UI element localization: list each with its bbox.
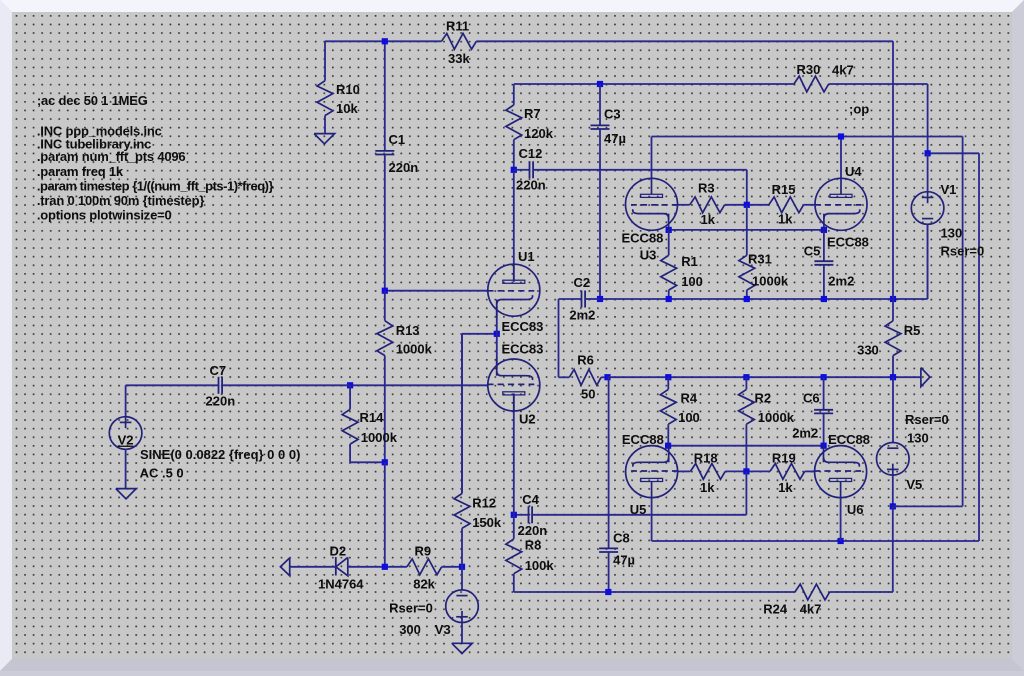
resistor R19 (770, 464, 805, 480)
label R1 (681, 254, 698, 269)
junction rail at C3/C2 (597, 296, 603, 302)
svg-text:.param timestep {1/((num_fft_p: .param timestep {1/((num_fft_pts-1)*freq… (37, 179, 274, 194)
input port arrow (280, 558, 289, 576)
svg-text:1k: 1k (701, 212, 716, 227)
label 150k R12 (472, 515, 502, 530)
svg-text:.tran 0 100m 90m {timestep}: .tran 0 100m 90m {timestep} (37, 193, 204, 208)
label 220n C12 (516, 178, 546, 193)
label 4k7 R30 (832, 63, 854, 78)
svg-text:1k: 1k (700, 480, 715, 495)
resistor R18 (690, 464, 725, 480)
wire R13/R14 node down to D2 rail (384, 462, 386, 567)
label C6 (803, 391, 820, 406)
svg-text:R9: R9 (415, 544, 432, 559)
svg-text:4k7: 4k7 (800, 602, 822, 617)
svg-text:C3: C3 (604, 107, 621, 122)
voltage source V2 (109, 417, 142, 450)
resistor R3 (690, 197, 725, 213)
svg-text:R15: R15 (772, 182, 796, 197)
svg-text:.options plotwinsize=0: .options plotwinsize=0 (37, 207, 172, 222)
wire R18/R19 node down bend left to C4 (532, 471, 746, 514)
svg-text:U3: U3 (640, 248, 657, 263)
wire U1 anode lead (513, 170, 515, 282)
wire R7 bottom to C12 node (513, 140, 515, 170)
label R5 (904, 323, 921, 338)
svg-text:U2: U2 (519, 411, 536, 426)
label 2m2 C5 (828, 273, 854, 288)
wire B+ rail R7/C3 to R30 (514, 83, 928, 85)
svg-text:1000k: 1000k (752, 273, 789, 288)
wire R31 top lead (746, 205, 748, 256)
spice directive text block (37, 93, 274, 223)
wire U2 cathode lead (496, 334, 498, 369)
svg-text:10k: 10k (336, 101, 358, 116)
triode U3 ECC88 (626, 178, 679, 232)
wire C2 right lead (585, 298, 600, 300)
wire R1 leads (668, 230, 670, 299)
wire C12 left lead (514, 169, 530, 171)
junction rail at R2 (743, 374, 749, 380)
resistor R12 (454, 494, 470, 529)
label 2m2 C6 (792, 426, 818, 441)
svg-text:V2: V2 (118, 433, 134, 448)
label R18 (694, 451, 718, 466)
wire R3 to junction to R15 (725, 204, 769, 206)
resistor R8 (506, 539, 522, 574)
label Rser V3 (389, 601, 433, 616)
junction rail at R5 bottom (890, 374, 896, 380)
svg-text:ECC88: ECC88 (622, 230, 664, 245)
svg-text:R6: R6 (577, 353, 594, 368)
triode U1 ECC83 (487, 264, 540, 318)
triode U2 ECC83 (487, 358, 540, 412)
svg-text:R3: R3 (698, 180, 715, 195)
junction at U4 anode (838, 133, 844, 139)
svg-text:100: 100 (681, 274, 703, 289)
svg-text:C7: C7 (210, 363, 227, 378)
svg-text:C6: C6 (803, 391, 820, 406)
voltage source V3 (446, 590, 479, 623)
svg-text:SINE(0 0.0822 {freq} 0 0 0): SINE(0 0.0822 {freq} 0 0 0) (140, 447, 300, 462)
wire V1 node to right branch (928, 152, 979, 154)
capacitor C5 top lead (823, 230, 825, 261)
label U5 (630, 502, 647, 517)
resistor R10 (317, 81, 333, 116)
label R12 (472, 496, 496, 511)
svg-text:220n: 220n (518, 523, 548, 538)
junction rail at R4 (665, 374, 671, 380)
label Rser V5 (905, 412, 949, 427)
label 120k (524, 126, 554, 141)
junction top rail at C1 (382, 38, 388, 44)
wire R14 leads (350, 385, 385, 462)
junction rail at C5 (821, 296, 827, 302)
resistor R4 (660, 389, 676, 424)
resistor R5 (885, 321, 901, 356)
wire C7 left lead to V2 (126, 385, 219, 417)
svg-text:R7: R7 (524, 106, 541, 121)
label R30 (797, 62, 821, 77)
label R24 (763, 602, 788, 617)
junction R14 return at R13 (382, 459, 388, 465)
svg-text:1k: 1k (778, 480, 793, 495)
label U6 (847, 502, 864, 517)
wire V1 top lead (927, 153, 929, 191)
label R8 (525, 538, 542, 553)
junction rail at C6 (821, 374, 827, 380)
capacitor C1 (375, 151, 394, 155)
resistor R11 (442, 33, 477, 49)
svg-text:C4: C4 (522, 492, 539, 507)
svg-text:;op: ;op (849, 102, 869, 117)
junction U1/U2 cathodes (494, 331, 500, 337)
wire C1 bottom to U1 grid node (384, 155, 386, 291)
label 50 R6 (581, 387, 595, 402)
svg-text:Rser=0: Rser=0 (905, 412, 949, 427)
resistor R9 (407, 559, 442, 575)
resistor R14 (342, 409, 358, 444)
capacitor C5 (814, 261, 833, 265)
resistor R6 (569, 369, 601, 385)
svg-text:R11: R11 (446, 19, 469, 34)
wire anode rail U3 to U4 to right bend (652, 136, 963, 138)
wire R18 to junction to R19 (725, 470, 770, 472)
label R4 (681, 391, 698, 406)
wire R19 to U6 grid (805, 470, 815, 472)
wire V3 bottom lead (461, 623, 463, 644)
label V3 (435, 622, 451, 637)
label D2 (330, 544, 347, 559)
resistor R1 (661, 255, 677, 290)
svg-text:C5: C5 (804, 244, 821, 259)
label R6 (577, 353, 594, 368)
resistor R30 (794, 76, 829, 92)
triode U6 ECC88 (814, 445, 867, 499)
wire R7 top lead (513, 84, 515, 105)
wire C3 bottom to ground rail (599, 129, 601, 299)
junction C8 bottom (605, 589, 611, 595)
svg-text:R14: R14 (360, 410, 385, 425)
wire V2 bottom lead (125, 449, 127, 489)
label 1000k R31 (752, 273, 789, 288)
wire U5 grid to R18 (677, 470, 690, 472)
svg-text:ECC83: ECC83 (502, 319, 544, 334)
wire C6 bottom lead (823, 413, 825, 445)
svg-text:50: 50 (581, 387, 595, 402)
junction R9/V3/R12 node (459, 564, 465, 570)
label 100k R8 (525, 558, 555, 573)
label U4 (845, 164, 862, 179)
svg-text:R18: R18 (694, 451, 718, 466)
label R2 (755, 391, 772, 406)
capacitor C4 (529, 506, 533, 523)
wire V3 top lead (461, 567, 463, 590)
wire cathode node U1/U2 to left bend down (462, 334, 497, 494)
wire R9 to V3 node (442, 566, 462, 568)
label C12 (519, 146, 543, 161)
svg-text:2m2: 2m2 (828, 273, 854, 288)
resistor R2 (739, 389, 755, 424)
wire R4 leads (667, 377, 669, 446)
svg-text:R19: R19 (772, 451, 796, 466)
label SINE V2 (140, 447, 300, 462)
junction at U4 cathode (821, 227, 827, 233)
junction at U5 cathode (665, 443, 671, 449)
label AC V2 (140, 466, 184, 481)
label 10k (336, 101, 358, 116)
label U1 (518, 249, 535, 264)
label R15 (772, 182, 796, 197)
label ECC88 U4 (827, 235, 869, 250)
label V2 (118, 433, 134, 448)
svg-text:1N4764: 1N4764 (318, 577, 364, 592)
svg-text:R31: R31 (748, 252, 772, 267)
svg-text:100k: 100k (525, 558, 555, 573)
wire R8 top lead (513, 515, 515, 539)
label C4 (522, 492, 539, 507)
wire D2 to R9 rail (348, 566, 407, 568)
junction at U6 anode (838, 538, 844, 544)
junction at U6 cathode (821, 443, 827, 449)
wire R8 bottom bend right (514, 574, 893, 592)
wire V5 node right bend up (893, 505, 963, 507)
junction at V1 top (925, 150, 931, 156)
ground below V3 (452, 643, 472, 653)
label R19 (772, 451, 796, 466)
capacitor C6 top lead (823, 377, 825, 410)
wire U6 anode lead (840, 498, 842, 541)
label C5 (804, 244, 821, 259)
wire right branch down to lower B+ rail (978, 153, 980, 541)
resistor R13 (377, 321, 393, 356)
wire C1 top lead (384, 41, 386, 151)
label 220n C1 (389, 160, 419, 175)
wire C12 to grid network bend (533, 170, 747, 205)
svg-text:V3: V3 (435, 622, 451, 637)
wire V5 bottom lead (892, 475, 894, 506)
svg-text:.param num_fft_pts 4096: .param num_fft_pts 4096 (37, 149, 186, 164)
resistor R31 (739, 255, 755, 290)
wire C8 bottom lead (608, 552, 610, 592)
label 1k R3 (701, 212, 716, 227)
junction rail at R1 (666, 296, 672, 302)
output port arrow (921, 368, 930, 387)
svg-text:220n: 220n (206, 394, 236, 409)
label ECC88 U6 (828, 432, 870, 447)
svg-text:220n: 220n (516, 178, 546, 193)
svg-text:R30: R30 (797, 62, 821, 77)
label R3 (698, 180, 715, 195)
wire U5 anode lead (651, 498, 653, 541)
wire R31 bottom lead (746, 290, 748, 299)
wire R5 node down to V5 (892, 377, 894, 442)
resistor R24 (795, 584, 830, 600)
label C8 (613, 530, 630, 545)
capacitor C7 (219, 377, 223, 394)
svg-text:100: 100 (678, 410, 700, 425)
label 130 V1 (941, 226, 963, 241)
svg-text:130: 130 (907, 431, 929, 446)
label V5 (906, 477, 922, 492)
svg-text:R1: R1 (681, 254, 698, 269)
label C7 (210, 363, 227, 378)
junction C4 left node (511, 512, 517, 518)
label Rser V1 (941, 244, 985, 259)
wire U1 cathode lead (496, 306, 498, 334)
svg-text:120k: 120k (524, 126, 554, 141)
wire arrow to D2 (290, 566, 336, 568)
svg-text:150k: 150k (472, 515, 502, 530)
junction at C12 left (511, 167, 517, 173)
wire U2 anode lead down (513, 393, 515, 514)
capacitor C12 (530, 161, 534, 178)
label 82k R9 (413, 577, 435, 592)
wire cathode rail U5 to U6 (668, 445, 824, 447)
wire R13 leads (384, 291, 386, 463)
wire C7 right lead (222, 384, 350, 386)
label 1N4764 (318, 577, 364, 592)
wire U3 grid to R3 (677, 204, 690, 206)
ground below R10 (314, 134, 335, 144)
wire output rail y377 (608, 376, 921, 378)
capacitor C6 (814, 410, 833, 414)
label 100 R4 (678, 410, 700, 425)
svg-text:C8: C8 (613, 530, 630, 545)
svg-text:2m2: 2m2 (569, 308, 595, 323)
label 47u C8 (613, 553, 635, 568)
wire R5 leads (892, 299, 894, 377)
wire R6 to junction (601, 376, 607, 378)
svg-text:2m2: 2m2 (792, 426, 818, 441)
label 300 V3 (399, 622, 421, 637)
label R9 (415, 544, 432, 559)
svg-text:U1: U1 (518, 249, 535, 264)
label 1k R15 (778, 212, 793, 227)
label ECC83 U2 (502, 342, 544, 357)
svg-text:Rser=0: Rser=0 (941, 244, 985, 259)
wire R10 to ground (324, 116, 326, 134)
label 47u C3 (604, 131, 626, 146)
svg-text:.param freq 1k: .param freq 1k (37, 164, 124, 179)
svg-text:ECC88: ECC88 (622, 432, 664, 447)
svg-text:R5: R5 (904, 323, 921, 338)
wire C4 left lead (514, 514, 529, 516)
junction V5 bottom node (890, 503, 896, 509)
label R31 (748, 252, 772, 267)
svg-text:R10: R10 (336, 82, 360, 97)
wire U3 anode lead (651, 137, 653, 179)
label ECC88 U5 (622, 432, 664, 447)
svg-text:130: 130 (941, 226, 963, 241)
capacitor C3 top lead (599, 84, 601, 125)
svg-text:AC .5 0: AC .5 0 (140, 466, 184, 481)
wire U2 grid (350, 384, 487, 386)
wire R12 leads (461, 334, 463, 567)
svg-text:82k: 82k (413, 577, 435, 592)
wire C2 left bend to R6 (559, 299, 582, 377)
triode U4 ECC88 (815, 178, 868, 232)
svg-text:ECC88: ECC88 (828, 432, 870, 447)
junction D2 rail at R13 branch (382, 564, 388, 570)
junction R6 right node (604, 374, 610, 380)
ground below V2 (116, 489, 136, 499)
svg-text:R12: R12 (472, 496, 496, 511)
svg-text:V1: V1 (941, 182, 957, 197)
label C2 (574, 275, 591, 290)
svg-text:47µ: 47µ (604, 131, 626, 146)
junction at C3 top (597, 81, 603, 87)
wire U1 grid (385, 290, 488, 292)
svg-text:Rser=0: Rser=0 (389, 601, 433, 616)
svg-text:D2: D2 (330, 544, 347, 559)
wire right bend down to V5 node (962, 137, 964, 507)
label 330 R5 (857, 343, 879, 358)
label 220n C7 (206, 394, 236, 409)
svg-text:1000k: 1000k (361, 430, 398, 445)
resistor R7 (506, 105, 522, 140)
svg-text:220n: 220n (389, 160, 419, 175)
capacitor C8 top lead (608, 377, 610, 548)
svg-text:4k7: 4k7 (832, 63, 854, 78)
wire R10 top lead (324, 41, 326, 80)
junction U2 grid node at C7/R14 (347, 382, 353, 388)
svg-text:1000k: 1000k (758, 410, 795, 425)
svg-text:47µ: 47µ (613, 553, 635, 568)
label 1000k R2 (758, 410, 795, 425)
label 130 V5 (907, 431, 929, 446)
label 33k (448, 51, 470, 66)
wire cathode rail U3 to U4 (669, 229, 824, 231)
wire R30 right bend down to V1 (927, 84, 929, 153)
label 1000k R14 (361, 430, 398, 445)
junction R3/R15 node (744, 202, 750, 208)
label R13 (396, 323, 420, 338)
junction R18/R19 node (743, 468, 749, 474)
capacitor C3 (591, 125, 610, 129)
triode U5 ECC88 (626, 445, 679, 499)
label C3 (604, 107, 621, 122)
wire top rail down right side (892, 41, 894, 299)
label C1 (389, 132, 406, 147)
wire R2 leads (745, 377, 747, 471)
svg-text:ECC83: ECC83 (502, 342, 544, 357)
voltage source V5 (877, 443, 910, 476)
svg-text:ECC88: ECC88 (827, 235, 869, 250)
svg-text:C1: C1 (389, 132, 406, 147)
svg-text:1000k: 1000k (396, 342, 433, 357)
label 1k R18 (700, 480, 715, 495)
svg-text:V5: V5 (906, 477, 922, 492)
wire C5 bottom lead (823, 265, 825, 299)
svg-text:R13: R13 (396, 323, 420, 338)
svg-text:R2: R2 (755, 391, 772, 406)
capacitor C2 (582, 291, 586, 308)
label ECC88 U3 (622, 230, 664, 245)
wire V5 node down to R24 (892, 506, 894, 592)
label ECC83 U1 (502, 319, 544, 334)
resistor R15 (769, 197, 804, 213)
svg-text:1k: 1k (778, 212, 793, 227)
label U2 (519, 411, 536, 426)
svg-text:R4: R4 (681, 391, 698, 406)
label 100 R1 (681, 274, 703, 289)
svg-text:C12: C12 (519, 146, 543, 161)
svg-text:33k: 33k (448, 51, 470, 66)
wire R15 to U4 grid (804, 204, 816, 206)
svg-text:U5: U5 (630, 502, 647, 517)
diode D2 (336, 557, 348, 576)
label R14 (360, 410, 385, 425)
